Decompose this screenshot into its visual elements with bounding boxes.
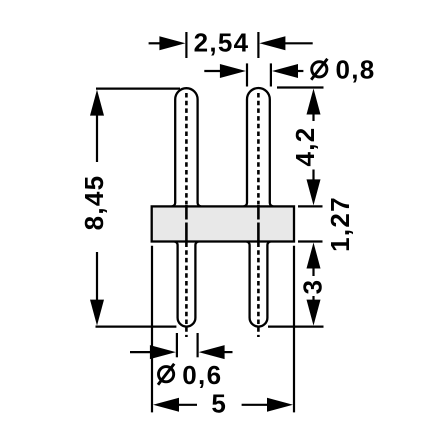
centerline pin P2 (257, 93, 260, 204)
pin P1 lower 0.6mm section (174, 242, 199, 327)
pin P1 (left, upper 0.8mm section) (172, 88, 201, 206)
bottom extension line right (for 3) (268, 326, 324, 328)
svg-text:2,54: 2,54 (194, 28, 250, 58)
centerline pin P1 (185, 93, 188, 204)
svg-text:8,45: 8,45 (79, 175, 109, 231)
svg-text:1,27: 1,27 (325, 196, 355, 252)
svg-text:3: 3 (298, 279, 328, 295)
dimension 5 extension line right (293, 246, 295, 413)
pin P2 (right, upper 0.8mm section) (244, 88, 274, 206)
dimension 5 left arrow (153, 398, 179, 412)
diameter symbol Ø (0,6) (159, 367, 174, 382)
dimension 2,54 left arrow (149, 42, 161, 44)
dimension Ø0,8 right arrow (297, 70, 303, 72)
dimension 2,54 extension line right (257, 32, 259, 58)
dimension Ø0,6 extension bars (176, 333, 178, 357)
dimension 5 right arrow (267, 398, 293, 412)
svg-text:0,6: 0,6 (182, 360, 222, 390)
block-top extension line right (298, 205, 323, 207)
dimension 2,54 extension line left (185, 32, 187, 58)
dimension 5 extension line left (151, 246, 153, 413)
insulator body (plastic spacer block) (152, 206, 294, 241)
dimension Ø0,6 left arrow (130, 351, 151, 353)
dimension 8,45 bottom arrow (90, 300, 104, 326)
dimension Ø0,8 left arrow (204, 70, 221, 72)
block-bottom extension line right (298, 240, 323, 242)
dimension 8,45 top arrow (90, 90, 104, 116)
dimension 8,45 bottom extension line (96, 326, 177, 328)
svg-text:0,8: 0,8 (336, 54, 376, 84)
dimension 3 bottom arrow (312, 296, 314, 301)
dimension Ø0,8 extension bars (246, 63, 248, 86)
dimension 1,27 / 3 shared arrow (up, below block) (307, 243, 321, 269)
svg-text:5: 5 (211, 388, 227, 418)
dimension 8,45 top extension line (96, 87, 180, 89)
diameter symbol Ø (0,8) (312, 62, 327, 77)
svg-text:4,2: 4,2 (290, 126, 320, 166)
pin-top extension line right (for 4,2) (277, 86, 324, 88)
pin P2 lower 0.6mm section (246, 242, 271, 327)
dimension 4,2 bottom arrow (shared with 1,27) (312, 170, 314, 182)
dimension Ø0,6 right arrow (223, 351, 233, 353)
dimension 2,54 right arrow (285, 42, 313, 44)
dimension 4,2 top arrow (307, 89, 321, 115)
